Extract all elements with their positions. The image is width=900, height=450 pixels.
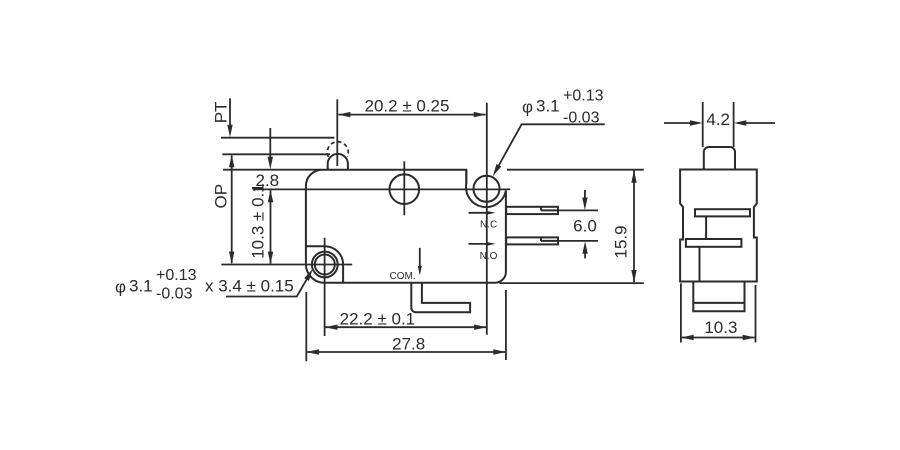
N.O terminal prong xyxy=(506,237,558,244)
dim 4.2 extension lines xyxy=(702,102,704,147)
dim 20.2 line xyxy=(339,114,486,116)
bottom-left hole vertical centerline xyxy=(324,238,326,336)
OP dimension line xyxy=(231,156,233,264)
dim 15.9 line xyxy=(633,171,635,283)
svg-text:3.1: 3.1 xyxy=(129,276,153,295)
plunger free position dashed circle xyxy=(327,142,348,157)
plunger centerline xyxy=(336,99,338,166)
top-right hole vertical centerline / extension xyxy=(486,103,488,335)
svg-text:15.9: 15.9 xyxy=(612,225,631,258)
dim 6.0 arrows xyxy=(584,190,586,200)
COM arrow xyxy=(419,248,421,267)
svg-text:+0.13: +0.13 xyxy=(563,88,604,105)
side view terminal link line xyxy=(705,216,707,239)
dim 6.0 extension lines xyxy=(558,209,598,211)
COM terminal (L-shape) xyxy=(411,283,470,312)
dim 10.3 extension lines (side) xyxy=(680,283,682,342)
side view bottom section xyxy=(693,282,744,312)
svg-text:3.1: 3.1 xyxy=(536,97,560,116)
svg-text:φ: φ xyxy=(522,98,533,117)
dim 10.3 +-0.1 line xyxy=(270,190,272,263)
svg-text:10.3: 10.3 xyxy=(704,318,737,337)
middle hole vertical centerline xyxy=(403,161,405,215)
operating position line (left) xyxy=(222,153,330,155)
bottom-left boss outline xyxy=(306,246,343,283)
svg-text:φ: φ xyxy=(115,277,126,296)
svg-text:10.3 ± 0.1: 10.3 ± 0.1 xyxy=(249,183,268,259)
top-right mounting hole xyxy=(474,176,500,202)
mounting hole centerline (lower, horizontal) xyxy=(221,264,352,266)
side view terminal bar 1 xyxy=(695,209,750,216)
leader line (top dia 3.1) xyxy=(495,124,605,172)
svg-text:-0.03: -0.03 xyxy=(156,285,193,302)
bottom-left mounting hole inner xyxy=(315,255,335,275)
mounting hole centerline (upper, horizontal) xyxy=(254,188,511,190)
N.C label arrow xyxy=(469,212,488,214)
side view bottom plate line xyxy=(693,302,744,304)
PT arrow xyxy=(229,98,231,127)
dim 10.3 line (side) xyxy=(682,337,755,339)
svg-text:x 3.4 ± 0.15: x 3.4 ± 0.15 xyxy=(205,276,294,295)
leader line (bottom dia 3.1) xyxy=(226,273,310,296)
dim 4.2 arrows xyxy=(664,122,692,124)
switch body outline xyxy=(306,170,506,283)
side view body outline xyxy=(680,170,757,282)
free position line (left) xyxy=(221,137,334,139)
N.O label arrow xyxy=(469,243,488,245)
dim 15.9 extension lines xyxy=(507,169,644,171)
middle hole xyxy=(390,174,420,204)
svg-text:22.2 ± 0.1: 22.2 ± 0.1 xyxy=(340,309,416,328)
svg-text:4.2: 4.2 xyxy=(706,110,730,129)
body top extension line (left) xyxy=(223,169,321,171)
svg-text:+0.13: +0.13 xyxy=(156,267,197,284)
svg-text:PT: PT xyxy=(212,102,231,124)
plunger dome (operating position) xyxy=(328,154,348,170)
svg-text:20.2 ± 0.25: 20.2 ± 0.25 xyxy=(365,96,450,115)
side view inner vertical line xyxy=(699,247,701,282)
dim 22.2 extension lines xyxy=(305,292,307,361)
svg-text:N.C: N.C xyxy=(480,219,497,230)
svg-text:OP: OP xyxy=(212,184,231,209)
side view terminal bar 2 xyxy=(686,239,742,247)
side view plunger xyxy=(704,147,735,170)
svg-text:N.O: N.O xyxy=(480,251,498,262)
svg-text:6.0: 6.0 xyxy=(573,217,597,236)
svg-text:27.8: 27.8 xyxy=(392,335,425,354)
top-right boss notch line xyxy=(465,170,467,184)
dim 2.8 upper arrow xyxy=(269,128,271,159)
dim 22.2 line xyxy=(325,326,486,328)
dim 27.8 line xyxy=(307,351,506,353)
bottom-left mounting hole outer xyxy=(312,252,338,278)
svg-text:COM.: COM. xyxy=(390,271,416,282)
N.C terminal prong xyxy=(506,207,558,214)
